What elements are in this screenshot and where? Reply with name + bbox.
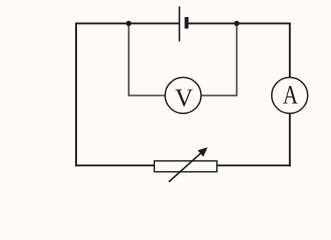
wire: voltmeter right branch (right from meter then up to node) (201, 23, 237, 95)
rheostat R1 arrow head (198, 147, 208, 157)
svg-text:V: V (175, 85, 193, 112)
wire: right side bottom, ammeter to corner (289, 113, 291, 166)
wire: top-left segment from corner to battery (76, 22, 179, 24)
wire: voltmeter left branch (down from node then right) (129, 23, 166, 95)
wire: top-right segment from battery to corner (187, 22, 291, 24)
wire: left side vertical (75, 23, 77, 167)
ammeter A1 circle (272, 77, 308, 113)
rheostat R1 arrow shaft (169, 153, 201, 182)
node: junction dot left (126, 21, 131, 26)
rheostat R1 body rectangle (154, 161, 217, 172)
node: junction dot right (234, 21, 239, 26)
wire: right side top, corner to ammeter (289, 23, 291, 79)
battery cell: long positive plate (178, 6, 180, 41)
voltmeter V1 circle (165, 77, 201, 113)
battery cell: short thick negative plate (185, 17, 189, 29)
wire: bottom-left segment to rheostat (75, 164, 155, 166)
wire: bottom-right segment from rheostat (217, 164, 291, 166)
svg-text:A: A (283, 80, 298, 109)
